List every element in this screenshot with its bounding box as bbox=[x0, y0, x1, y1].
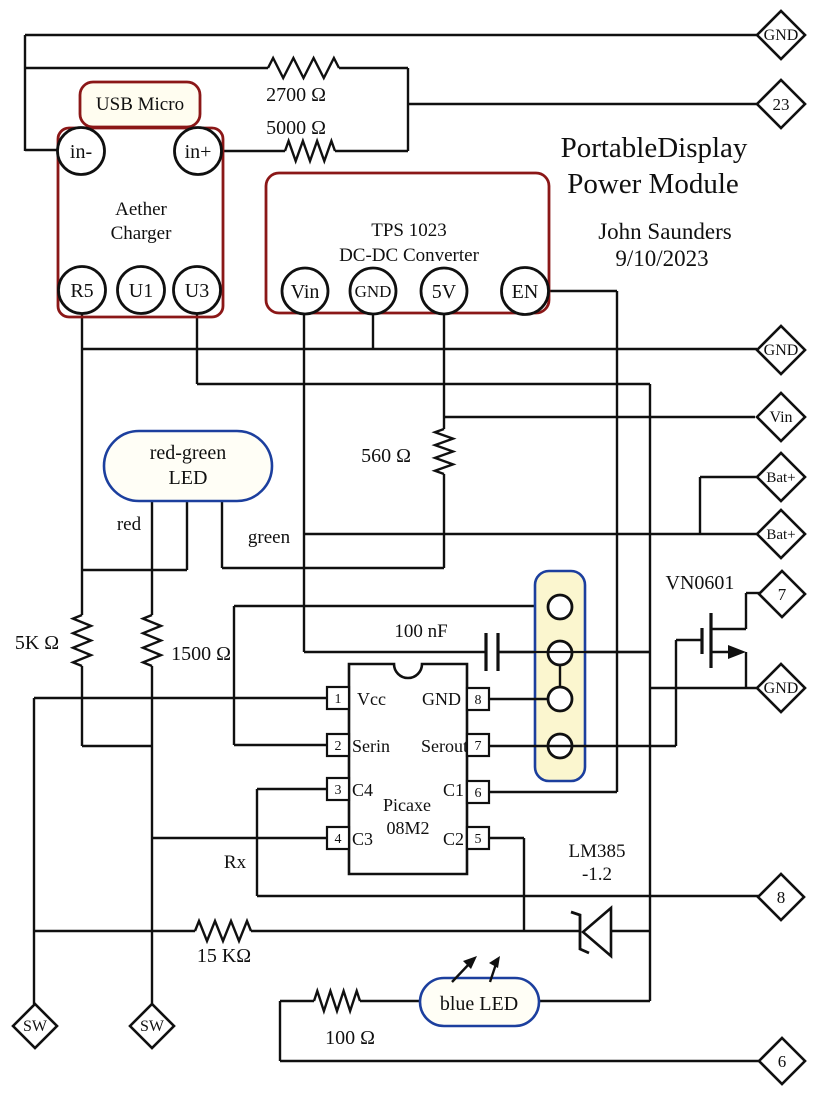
svg-text:GND: GND bbox=[764, 27, 799, 44]
wire TPS GND drop bbox=[372, 314, 374, 349]
svg-text:2: 2 bbox=[335, 739, 342, 754]
svg-text:4: 4 bbox=[335, 832, 342, 847]
resistor R 5000 bbox=[285, 141, 335, 161]
svg-text:VN0601: VN0601 bbox=[666, 572, 735, 594]
wire pin1 row bbox=[34, 697, 327, 699]
wire drain up bbox=[745, 593, 747, 629]
wire 2700 row right segment bbox=[339, 67, 408, 69]
module U Aether Charger box bbox=[58, 128, 223, 317]
wire link pins 2-3 bbox=[559, 665, 561, 687]
wire drain to pad 7 bbox=[746, 592, 760, 594]
node GND pad 3 bbox=[757, 664, 805, 712]
svg-text:Vcc: Vcc bbox=[357, 689, 386, 709]
svg-text:TPS 1023: TPS 1023 bbox=[371, 220, 447, 241]
pin 5V circle bbox=[421, 268, 467, 314]
node SW pad right bbox=[130, 1004, 174, 1048]
svg-text:5000 Ω: 5000 Ω bbox=[266, 117, 326, 139]
wire R5 drop bbox=[81, 313, 83, 615]
pin 6 box bbox=[467, 781, 489, 803]
svg-text:3: 3 bbox=[335, 783, 342, 798]
connector J1 pin circle 1 bbox=[548, 595, 572, 619]
svg-text:GND: GND bbox=[764, 680, 799, 697]
svg-text:GND: GND bbox=[422, 689, 461, 709]
svg-text:Serin: Serin bbox=[352, 736, 390, 756]
svg-text:in-: in- bbox=[70, 141, 92, 163]
node GND pad 2 bbox=[757, 326, 805, 374]
svg-text:Vin: Vin bbox=[291, 281, 320, 303]
svg-text:2700 Ω: 2700 Ω bbox=[266, 84, 326, 106]
wire in+ lead bbox=[221, 150, 285, 152]
wire source stub bbox=[711, 651, 736, 653]
svg-text:GND: GND bbox=[764, 342, 799, 359]
wire U3 drop bbox=[196, 313, 198, 384]
pin R5 circle bbox=[59, 267, 106, 314]
wire Bat+ upper stub bbox=[700, 476, 757, 478]
wire pin2 row bbox=[234, 744, 327, 746]
wire 15K row left bbox=[34, 930, 195, 932]
wire left low vertical bbox=[33, 698, 35, 1004]
pin 5 box bbox=[467, 827, 489, 849]
svg-text:Serout: Serout bbox=[421, 736, 468, 756]
resistor R 15K bbox=[195, 921, 251, 941]
wire right loop vertical bbox=[407, 68, 409, 151]
svg-text:LM385: LM385 bbox=[569, 841, 626, 862]
svg-text:C3: C3 bbox=[352, 829, 373, 849]
pin 7 box bbox=[467, 734, 489, 756]
svg-text:U3: U3 bbox=[185, 280, 209, 302]
wire cap row left bbox=[304, 651, 485, 653]
connector J1 pin circle 3 bbox=[548, 687, 572, 711]
wire left rail vertical bbox=[24, 35, 26, 151]
pin 4 box bbox=[327, 827, 349, 849]
pin U3 circle bbox=[174, 267, 221, 314]
svg-text:SW: SW bbox=[23, 1018, 48, 1035]
wire GND row 2 bbox=[81, 348, 757, 350]
op-amp U2 Picaxe body bbox=[349, 664, 467, 874]
svg-text:5: 5 bbox=[475, 832, 482, 847]
svg-text:560 Ω: 560 Ω bbox=[361, 445, 411, 467]
svg-text:C4: C4 bbox=[352, 780, 373, 800]
svg-text:Picaxe: Picaxe bbox=[383, 795, 431, 815]
wire pin3 vertical bbox=[256, 789, 258, 896]
wire source down bbox=[745, 652, 747, 688]
transistor Q1 source arrow bbox=[728, 645, 746, 659]
node 6 pad bbox=[759, 1038, 805, 1084]
pin 2 box bbox=[327, 734, 349, 756]
wire drain stub bbox=[711, 628, 746, 630]
transistor Q1 gate bar bbox=[700, 628, 703, 654]
svg-text:100 nF: 100 nF bbox=[394, 621, 447, 642]
svg-text:1500 Ω: 1500 Ω bbox=[171, 643, 231, 665]
wire pin7 header row bbox=[489, 745, 676, 747]
node 23 pad bbox=[757, 80, 805, 128]
svg-text:5K Ω: 5K Ω bbox=[15, 632, 59, 654]
svg-text:6: 6 bbox=[475, 786, 482, 801]
wire gate stub bbox=[676, 639, 702, 641]
svg-text:red-green: red-green bbox=[150, 442, 227, 464]
svg-text:8: 8 bbox=[475, 693, 482, 708]
wire pin8 to header bbox=[489, 698, 549, 700]
svg-text:C1: C1 bbox=[443, 780, 464, 800]
node 7 pad bbox=[759, 571, 805, 617]
wire Vin circle drop bbox=[303, 314, 305, 652]
pin 3 box bbox=[327, 778, 349, 800]
svg-text:Charger: Charger bbox=[111, 223, 173, 244]
pin 8 box bbox=[467, 688, 489, 710]
diode D zener cathode bar bbox=[571, 912, 589, 953]
wire LED mid lead bbox=[151, 501, 153, 615]
LED arrow 1 bbox=[452, 956, 477, 982]
capacitor C 100nF plate left bbox=[484, 633, 487, 671]
LED D red-green body bbox=[104, 431, 272, 501]
wire EN lead bbox=[548, 290, 617, 292]
pin EN circle bbox=[502, 268, 549, 315]
svg-text:Bat+: Bat+ bbox=[766, 470, 795, 486]
transistor Q1 channel bar bbox=[709, 613, 712, 668]
wire pin3 lead bbox=[257, 788, 327, 790]
wire 5000 row right segment bbox=[335, 150, 408, 152]
svg-text:green: green bbox=[248, 527, 291, 548]
wire right long vertical bbox=[649, 384, 651, 1001]
svg-text:EN: EN bbox=[512, 281, 539, 303]
connector USB Micro box bbox=[80, 82, 200, 127]
wire pin6 row bbox=[489, 791, 617, 793]
svg-text:08M2: 08M2 bbox=[386, 818, 429, 838]
svg-text:red: red bbox=[117, 514, 142, 535]
wire 15K row right bbox=[251, 930, 579, 932]
wire pin5 vertical bbox=[523, 838, 525, 931]
svg-text:John Saunders: John Saunders bbox=[598, 219, 732, 244]
svg-text:7: 7 bbox=[475, 739, 482, 754]
svg-text:blue LED: blue LED bbox=[440, 993, 518, 1015]
wire 2700 row left segment bbox=[25, 67, 268, 69]
wire green row bbox=[222, 567, 444, 569]
wire 5V drop bbox=[443, 314, 445, 417]
connector J1 body bbox=[535, 571, 585, 781]
svg-text:15 KΩ: 15 KΩ bbox=[197, 945, 251, 967]
wire LED red lead bbox=[186, 501, 188, 570]
wire gate vertical bbox=[675, 640, 677, 746]
svg-text:Power Module: Power Module bbox=[567, 168, 739, 200]
wire pad8 row bbox=[257, 895, 759, 897]
wire U3 row bbox=[197, 383, 650, 385]
wire to pad 23 bbox=[408, 103, 758, 105]
svg-text:GND: GND bbox=[355, 282, 392, 301]
svg-text:USB Micro: USB Micro bbox=[96, 94, 184, 115]
node Bat+ pad upper bbox=[757, 453, 805, 501]
wire 5K bottom lead bbox=[81, 666, 83, 746]
wire blue LED row right bbox=[539, 1000, 650, 1002]
svg-text:7: 7 bbox=[778, 585, 787, 604]
svg-text:8: 8 bbox=[777, 888, 786, 907]
wire in- lead bbox=[25, 149, 59, 151]
wire 1500 to SW2 bbox=[151, 666, 153, 1004]
svg-text:SW: SW bbox=[140, 1018, 165, 1035]
resistor R 5K bbox=[73, 615, 91, 666]
node Vin pad bbox=[757, 393, 805, 441]
wire Vin pad row bbox=[444, 416, 755, 418]
wire serial vertical bbox=[233, 606, 235, 745]
svg-text:6: 6 bbox=[778, 1052, 787, 1071]
connector J1 pin circle 2 bbox=[548, 641, 572, 665]
wire red row bbox=[82, 569, 187, 571]
resistor R 2700 bbox=[268, 58, 339, 78]
svg-text:Vin: Vin bbox=[769, 409, 792, 426]
svg-text:23: 23 bbox=[773, 95, 790, 114]
pin in+ circle bbox=[175, 128, 222, 175]
wire LED green lead bbox=[221, 501, 223, 568]
pin in- circle bbox=[58, 128, 105, 175]
svg-text:-1.2: -1.2 bbox=[582, 864, 612, 885]
svg-text:Aether: Aether bbox=[115, 199, 167, 220]
capacitor C 100nF plate right bbox=[496, 633, 499, 671]
svg-text:PortableDisplay: PortableDisplay bbox=[561, 132, 748, 164]
node Bat+ pad lower bbox=[757, 510, 805, 558]
pin U1 circle bbox=[118, 267, 165, 314]
wire through pin circle 2 bbox=[498, 651, 650, 653]
wire 100ohm right lead bbox=[360, 1000, 420, 1002]
wire cap to header bbox=[498, 651, 650, 653]
wire GND pad3 row bbox=[650, 687, 759, 689]
wire 100ohm left lead bbox=[280, 1000, 314, 1002]
svg-text:R5: R5 bbox=[70, 280, 93, 302]
connector J1 pin circle 4 bbox=[548, 734, 572, 758]
pin Vin circle bbox=[282, 268, 328, 314]
wire zener right lead bbox=[612, 930, 650, 932]
resistor R 1500 bbox=[143, 615, 161, 666]
resistor R 560 bbox=[435, 429, 453, 474]
svg-text:Rx: Rx bbox=[224, 852, 247, 873]
node 8 pad bbox=[758, 874, 804, 920]
svg-text:in+: in+ bbox=[185, 141, 212, 163]
wire header pin1 row bbox=[234, 605, 549, 607]
svg-text:5V: 5V bbox=[432, 281, 457, 303]
svg-text:1: 1 bbox=[335, 692, 342, 707]
pin 1 box bbox=[327, 687, 349, 709]
module U TPS 1023 box bbox=[266, 173, 549, 313]
wire Bat+ row bbox=[304, 533, 757, 535]
wire 560 top lead bbox=[443, 417, 445, 429]
LED D blue body bbox=[420, 978, 539, 1026]
diode D zener triangle bbox=[583, 908, 611, 956]
wire Bat+ link vertical bbox=[699, 477, 701, 534]
wire pin5 stub bbox=[489, 837, 524, 839]
wire pin4 row bbox=[152, 837, 327, 839]
wire pad6 row bbox=[280, 1060, 760, 1062]
svg-text:9/10/2023: 9/10/2023 bbox=[615, 246, 708, 271]
wire 5K to SW2 link bbox=[82, 745, 152, 747]
svg-text:C2: C2 bbox=[443, 829, 464, 849]
LED arrow 2 bbox=[489, 956, 500, 982]
node SW pad left bbox=[13, 1004, 57, 1048]
svg-text:100 Ω: 100 Ω bbox=[325, 1027, 375, 1049]
pin GND circle bbox=[350, 268, 396, 314]
wire GND top rail bbox=[25, 34, 757, 36]
wire EN vertical bbox=[616, 291, 618, 792]
svg-text:Bat+: Bat+ bbox=[766, 527, 795, 543]
svg-text:DC-DC Converter: DC-DC Converter bbox=[339, 245, 480, 266]
svg-text:LED: LED bbox=[169, 467, 208, 489]
svg-text:U1: U1 bbox=[129, 280, 153, 302]
wire pad6 drop bbox=[279, 1001, 281, 1061]
resistor R 100 bbox=[314, 991, 360, 1011]
node GND pad top bbox=[757, 11, 805, 59]
wire 560 bottom lead bbox=[443, 474, 445, 568]
